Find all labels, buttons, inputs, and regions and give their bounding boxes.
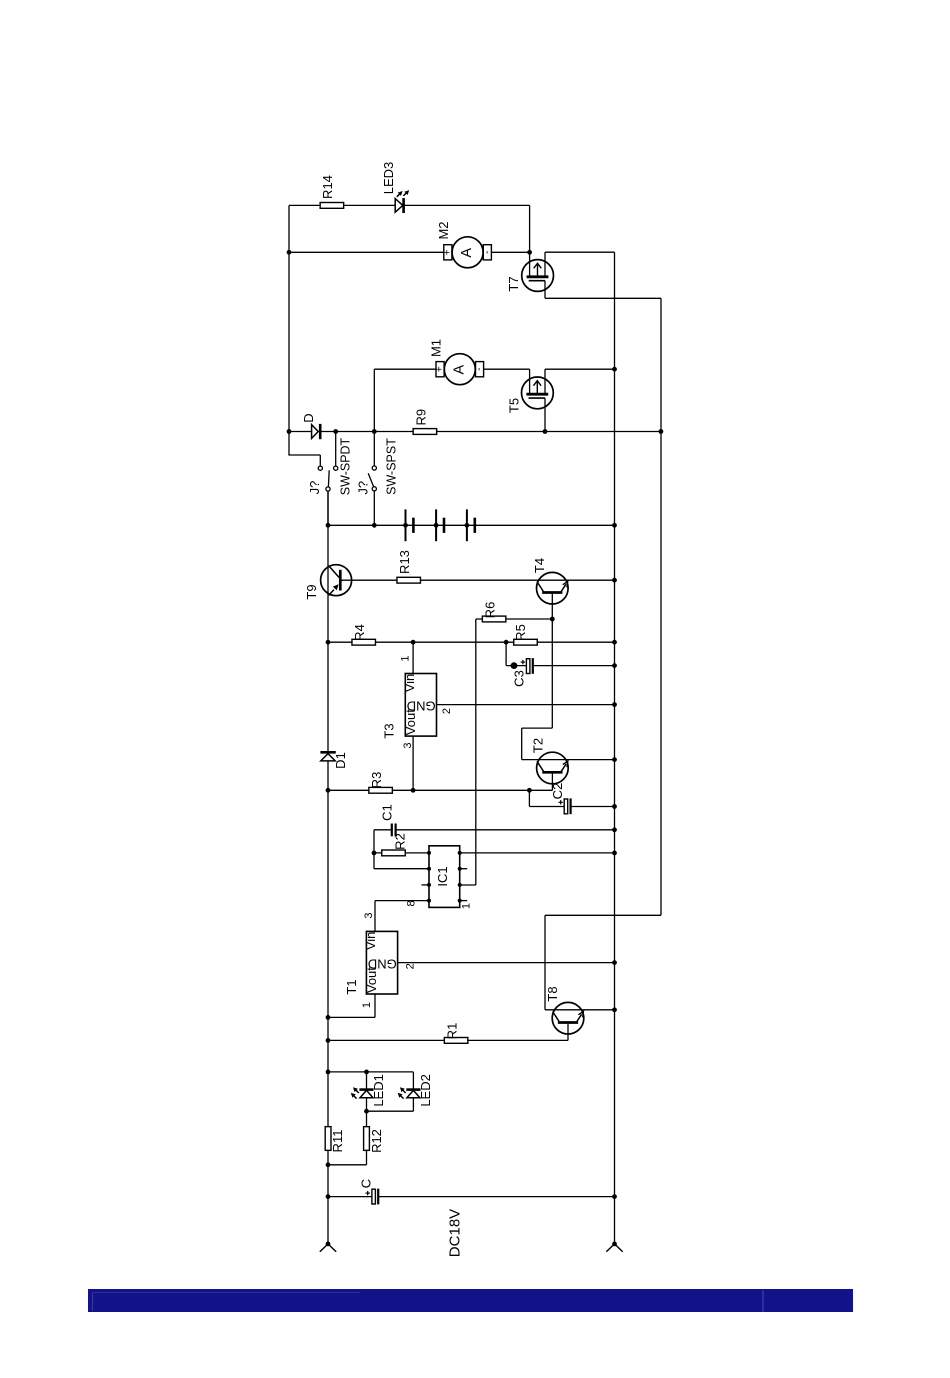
svg-text:+: + — [442, 249, 453, 255]
wire R3 line — [328, 789, 552, 791]
footer bar — [88, 1289, 853, 1312]
svg-text:R6: R6 — [483, 602, 498, 619]
switch SW-SPST — [368, 434, 376, 491]
wire C1 left column — [373, 830, 375, 869]
junction SPDT-battery — [326, 523, 331, 528]
resistor R1 — [444, 1038, 468, 1044]
resistor R2 — [382, 850, 406, 856]
svg-text:T5: T5 — [506, 398, 521, 413]
wire rail bend segment — [288, 431, 290, 455]
wire gate column vertical — [660, 298, 662, 915]
junction T5 gate-R9 line — [543, 429, 548, 434]
wire bend horizontal to SPDT — [288, 454, 320, 456]
svg-text:DC18V: DC18V — [446, 1209, 463, 1257]
junction R5-rail — [612, 640, 617, 645]
LED LED1 — [351, 1087, 374, 1098]
wire T7 right to rail — [545, 251, 615, 253]
resistor R12 — [364, 1127, 370, 1151]
op-amp IC1 — [422, 846, 468, 908]
svg-text:M1: M1 — [428, 339, 443, 357]
junction C3-rail — [612, 663, 617, 668]
svg-text:3: 3 — [363, 912, 375, 918]
wire T3 GND line — [437, 704, 615, 706]
svg-text:C3: C3 — [511, 670, 526, 687]
wire R6 line — [476, 618, 553, 620]
junction T5-rail — [612, 367, 617, 372]
svg-text:R11: R11 — [330, 1130, 345, 1153]
transistor T5 (MOSFET) — [522, 369, 554, 431]
svg-text:-: - — [474, 368, 485, 371]
svg-text:R3: R3 — [369, 772, 384, 789]
junction R3-C2 node — [527, 788, 532, 793]
wire C line right — [378, 1196, 614, 1198]
wire left top rail — [288, 205, 290, 431]
wire T2 collector-emitter line — [522, 759, 615, 761]
junction T8-rail — [612, 1007, 617, 1012]
svg-text:2: 2 — [405, 963, 417, 969]
wire R1 line — [328, 1039, 568, 1041]
wire LED1 to R12 node — [366, 1098, 368, 1111]
wire T7 gate to right column — [545, 297, 661, 299]
svg-text:M2: M2 — [436, 221, 451, 239]
junction rail-R3 — [326, 788, 331, 793]
wire SPDT left contact drop — [319, 455, 321, 466]
svg-text:T9: T9 — [304, 584, 319, 599]
svg-text:A: A — [451, 365, 467, 375]
junction SPDT contact node — [333, 429, 338, 434]
regulator T1 — [363, 931, 398, 994]
wire LED2 branch top — [412, 1072, 414, 1090]
svg-text:D: D — [301, 413, 316, 422]
svg-text:LED3: LED3 — [381, 162, 396, 195]
svg-text:1: 1 — [399, 655, 411, 661]
svg-text:C2: C2 — [550, 783, 565, 800]
wire LED2 down — [412, 1098, 414, 1111]
svg-text:C: C — [359, 1179, 374, 1188]
wire gate column horizontal — [545, 914, 661, 916]
junction C3 plate node — [511, 662, 518, 669]
battery cells — [403, 509, 475, 541]
svg-text:Vout: Vout — [364, 967, 379, 993]
junction rail-LED line — [326, 1070, 331, 1075]
wire LED top line — [328, 1071, 413, 1073]
resistor R4 — [352, 639, 376, 645]
junction C1-rail — [612, 827, 617, 832]
junction LED1-LED2-R12 — [364, 1109, 369, 1114]
capacitor C2 — [529, 790, 614, 814]
wire battery line — [328, 524, 615, 526]
junction rail-R1 — [326, 1038, 331, 1043]
svg-text:T3: T3 — [381, 723, 396, 738]
switch SW-SPDT — [318, 432, 338, 492]
svg-text:R1: R1 — [445, 1023, 460, 1040]
junction SPST-M1 node — [372, 429, 377, 434]
wire LED3 down to M2 node — [529, 205, 531, 252]
junction T3 Vin node — [411, 640, 416, 645]
junction IC1-rail — [612, 851, 617, 856]
wire R2 line — [374, 852, 429, 854]
junction rail-C — [326, 1194, 331, 1199]
wire T3 pin1 drop — [412, 642, 414, 673]
wire R12 link — [366, 1111, 368, 1126]
wire T1 Vin drop — [374, 901, 376, 932]
svg-text:1: 1 — [461, 903, 473, 909]
capacitor C — [366, 1189, 379, 1205]
svg-text:T2: T2 — [530, 738, 545, 753]
wire T5 right to rail — [545, 368, 615, 370]
junction T2-rail — [612, 757, 617, 762]
wire R14 LED3 line — [289, 204, 530, 206]
svg-text:T7: T7 — [506, 276, 521, 291]
wire T4 base column — [551, 619, 553, 728]
svg-text:Vout: Vout — [403, 709, 418, 735]
junction SPST-battery — [372, 523, 377, 528]
wire M1 to T5 — [484, 368, 530, 370]
wire T8 drive vertical — [544, 915, 546, 1010]
junction rail-M2 — [287, 250, 292, 255]
wire SPDT common down — [327, 491, 329, 525]
capacitor C3 — [506, 642, 614, 674]
wire right rail — [614, 252, 616, 1244]
wire R12 bottom — [366, 1150, 368, 1164]
svg-text:-: - — [482, 251, 493, 254]
wire T1 GND line — [398, 962, 615, 964]
svg-text:R4: R4 — [352, 624, 367, 641]
svg-text:IC1: IC1 — [435, 866, 450, 886]
svg-text:D1: D1 — [333, 752, 348, 769]
transistor T9 (PNP) — [321, 565, 352, 596]
svg-text:R9: R9 — [413, 409, 428, 426]
diode D — [312, 424, 321, 439]
svg-text:1: 1 — [361, 1002, 373, 1008]
junction rail-D line — [287, 429, 292, 434]
svg-text:Vin: Vin — [402, 674, 417, 693]
svg-text:T1: T1 — [344, 979, 359, 994]
svg-text:LED2: LED2 — [418, 1074, 433, 1107]
resistor R13 — [397, 577, 421, 583]
junction R9 end-gate column — [659, 429, 664, 434]
svg-text:T8: T8 — [545, 986, 560, 1001]
svg-text:LED1: LED1 — [371, 1074, 386, 1107]
wire T8 collector-emitter line — [545, 1009, 615, 1011]
transistor T2 (NPN) — [537, 752, 569, 790]
junction T3 GND-rail — [612, 702, 617, 707]
junction R13 line-rail — [612, 578, 617, 583]
svg-text:R12: R12 — [369, 1129, 384, 1153]
resistor R6 — [482, 616, 506, 622]
capacitor C1 — [374, 824, 615, 837]
junction T4 base-R6 — [550, 617, 555, 622]
terminal left (DC18V minus) — [320, 1242, 336, 1252]
resistor R5 — [514, 639, 538, 645]
svg-text:+: + — [435, 366, 446, 372]
wire D R9 line — [289, 431, 661, 433]
wire M2 to T7 node — [491, 251, 529, 253]
junction rail-T1 Vout — [326, 1015, 331, 1020]
motor M2 — [442, 237, 493, 268]
svg-text:C1: C1 — [379, 804, 394, 821]
wire IC1 pin8 to T1 — [375, 900, 429, 902]
junction M2-LED3-T7 — [527, 250, 532, 255]
wire IC1 pin7 line — [374, 868, 429, 870]
terminal right (DC18V plus) — [606, 1242, 622, 1252]
svg-text:R2: R2 — [393, 833, 408, 850]
svg-text:Vin: Vin — [363, 932, 378, 951]
wire LED1 branch top — [366, 1072, 368, 1090]
transistor T4 (NPN) — [537, 572, 569, 619]
wire T4-T2 jog vertical — [521, 728, 523, 760]
wire LED2 to node — [367, 1110, 414, 1112]
transistor T7 (MOSFET) — [522, 252, 554, 298]
svg-text:R14: R14 — [320, 175, 335, 199]
wire T1 Vout drop — [374, 994, 376, 1017]
svg-text:J?: J? — [356, 481, 371, 495]
wire R12 to rail — [328, 1164, 367, 1166]
junction LED1 top — [364, 1070, 369, 1075]
LED LED3 — [395, 190, 409, 213]
motor M1 — [435, 354, 486, 385]
junction battery-rail — [612, 523, 617, 528]
wire M2 line — [289, 251, 444, 253]
resistor R3 — [369, 787, 393, 793]
svg-text:SW-SPST: SW-SPST — [384, 438, 398, 495]
wire T1 Vout horizontal — [328, 1016, 375, 1018]
wire R13 base line — [342, 579, 615, 581]
transistor T8 (NPN) — [552, 1002, 584, 1040]
junction T1 GND-rail — [612, 960, 617, 965]
wire R6 column to IC1 pin — [460, 884, 476, 886]
svg-text:R13: R13 — [397, 550, 412, 574]
junction C2-rail — [612, 804, 617, 809]
wire R4 R5 line — [328, 641, 615, 643]
wire left rail — [327, 491, 329, 1244]
svg-text:T4: T4 — [532, 558, 547, 573]
wire M1 left drop — [373, 369, 375, 431]
regulator T3 — [402, 674, 437, 737]
resistor R14 — [320, 203, 344, 209]
wire C line left — [328, 1196, 372, 1198]
junction R5-C3 node — [504, 640, 509, 645]
wire M1 left horizontal — [374, 368, 436, 370]
diode D1 — [320, 752, 335, 761]
svg-text:2: 2 — [441, 708, 453, 714]
junction rail-R4 — [326, 640, 331, 645]
junction rail-R12 — [326, 1162, 331, 1167]
wire T4-T2 jog horizontal — [522, 727, 553, 729]
wire T3 Vout drop — [412, 736, 414, 790]
resistor R9 — [413, 429, 437, 435]
wire R6 column down to IC1 — [475, 619, 477, 885]
junction R2 left node — [372, 851, 377, 856]
junction Vout-R3 — [411, 788, 416, 793]
resistor R11 — [325, 1127, 331, 1151]
svg-text:SW-SPDT: SW-SPDT — [338, 437, 352, 495]
junction C-rail — [612, 1194, 617, 1199]
wire SPST common down — [373, 491, 375, 525]
svg-text:J?: J? — [307, 481, 322, 495]
svg-text:8: 8 — [406, 900, 418, 906]
svg-text:R5: R5 — [513, 624, 528, 641]
svg-text:3: 3 — [402, 742, 414, 748]
wire IC1 pin2 to rail — [460, 852, 615, 854]
svg-text:A: A — [459, 248, 475, 258]
LED LED2 — [398, 1087, 421, 1098]
